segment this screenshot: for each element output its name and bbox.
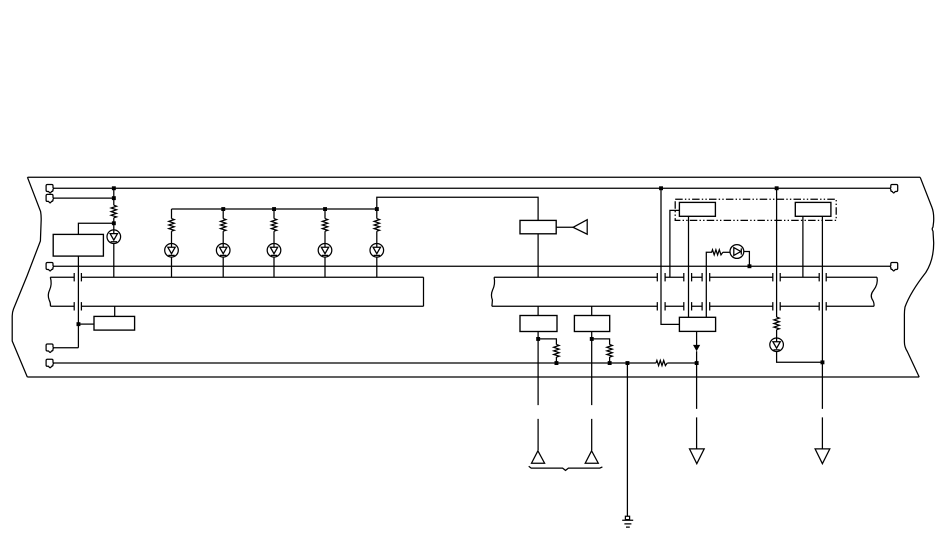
connector C5 left of wire D (46, 359, 54, 367)
small box U2 (94, 316, 135, 330)
U7 bottom stem (688, 216, 690, 317)
junction dot x78 y324 (77, 322, 81, 326)
wire dot to small box (78, 323, 94, 325)
wire relay top link (78, 223, 113, 234)
box U7 (left unit in enclosure) (679, 202, 715, 216)
connector right end of wire A (890, 185, 898, 193)
device wire up from U6 (706, 252, 712, 317)
junction dot wire B x114 (112, 196, 116, 200)
chassis ground G1 (625, 516, 629, 519)
bus2 torn right edge (871, 277, 877, 306)
wire lamp L3 to cluster bus (222, 257, 224, 277)
resistor R5 (324, 209, 326, 219)
resistor R6 (554, 345, 559, 358)
resistor R1 (111, 205, 116, 218)
bus1 torn left edge (48, 277, 51, 306)
wire lamp L6 to cluster bus (376, 257, 378, 277)
horn triangle (573, 220, 587, 235)
wire lamp L5 to cluster bus (324, 257, 326, 277)
box U5 (574, 316, 609, 332)
U4 bottom wire (537, 332, 539, 451)
lamp L2 (171, 231, 173, 243)
shield triangle 2 (585, 451, 598, 463)
U3 bottom stem (537, 234, 539, 277)
diode circle D2 (723, 251, 730, 253)
wire B (53, 197, 114, 199)
wire from C4 to relay stem (53, 347, 78, 349)
bus1 top line (50, 276, 423, 278)
relay box K1 (53, 234, 103, 256)
resistor R9 (712, 250, 723, 255)
underbrace (529, 466, 603, 470)
U4 dot (536, 337, 540, 341)
U5 dot (590, 337, 594, 341)
diode wire down (696, 363, 698, 449)
R7 dot (608, 361, 612, 365)
lamp L3 (222, 231, 224, 243)
wire lamp L4 to cluster bus (273, 257, 275, 277)
diode wire dot on D (695, 361, 699, 365)
resistor R10 (774, 317, 779, 330)
lamp L5 (324, 231, 326, 243)
U5 branch (592, 339, 610, 345)
wire C (53, 265, 890, 267)
U6 feed left wire (661, 188, 679, 324)
wire D (53, 362, 696, 364)
feed dot 2 (272, 207, 276, 211)
bus1 tick bottom b (80, 302, 82, 310)
U8 long wire down (821, 216, 823, 449)
bus2 ticks bottom (656, 302, 658, 310)
ground wire dot (626, 361, 630, 365)
ground wire x627 (626, 363, 628, 516)
resistor R4 (273, 209, 275, 219)
resistor R6 (376, 209, 378, 219)
bus1 right edge (423, 277, 425, 306)
feed dot 4 (375, 207, 379, 211)
bus1 tick top a (73, 273, 75, 281)
wire A (53, 187, 890, 189)
diode D1 filled (693, 345, 700, 351)
bus1 tick top b (80, 273, 82, 281)
stem row2 to small box (114, 306, 116, 316)
wire A dot x661 (659, 186, 663, 190)
U5 bottom wire (591, 332, 593, 451)
band right torn edge (904, 177, 933, 377)
resistor R2 (171, 209, 173, 219)
feed dot 3 (323, 207, 327, 211)
resistor R7 (607, 345, 612, 358)
U6 bottom stem (696, 331, 698, 345)
bus2 ticks top (656, 273, 658, 281)
bus1 tick bottom a (73, 302, 75, 310)
band left torn edge (12, 177, 41, 377)
U4 top stem (537, 306, 539, 315)
U5 top stem (591, 306, 593, 315)
horn wire (556, 226, 573, 228)
connector C3 left of wire C (46, 263, 54, 271)
R6 dot (555, 361, 559, 365)
lamp L7 bottom wire (777, 352, 823, 363)
box U3 (tone unit) (520, 220, 556, 233)
lamp L6 (376, 231, 378, 243)
diode branch: box U6 (679, 317, 715, 331)
bus1 bottom line (51, 305, 424, 307)
wire lamp L2 to cluster bus (171, 257, 173, 277)
down arrow 2 (815, 449, 830, 464)
box U8 (right unit in enclosure) (795, 202, 831, 216)
dot x822 wire D2 (821, 360, 825, 364)
box U4 (520, 316, 557, 332)
bus2 torn left edge (491, 277, 494, 306)
relay bottom wire (77, 256, 79, 348)
junction dot wire A x114 (112, 186, 116, 190)
band top border (28, 176, 921, 178)
bus2 bottom line (492, 305, 874, 307)
wire A dot x776.5 (775, 186, 779, 190)
band bottom border (27, 376, 919, 378)
lamp L4 (273, 231, 275, 243)
lamp feed wire (172, 197, 539, 220)
dash-dot enclosure (675, 199, 836, 220)
junction dot R1/lamp (112, 221, 116, 225)
U7 left wire to bus (670, 210, 680, 277)
connector right end of wire C (890, 263, 898, 271)
connector C2 left of wire B (46, 194, 54, 202)
connector C4 (46, 344, 54, 352)
wire C dot x749 (748, 264, 752, 268)
lamp L1 (113, 223, 115, 230)
bus2 top line (494, 276, 877, 278)
connector C1 left of wire A (46, 185, 54, 193)
shield triangle 1 (532, 451, 545, 463)
feed dot 1 (221, 207, 225, 211)
wire D inline resistor R8 (656, 360, 667, 367)
resistor R3 (222, 209, 224, 219)
wire A-B vertical x114 (113, 188, 115, 202)
lamp L7 (770, 338, 784, 352)
lamp branch x776.5 (776, 188, 778, 317)
U4 branch (538, 339, 556, 345)
down arrow 1 (690, 449, 705, 464)
U8 stem to bus row1 (802, 216, 804, 277)
